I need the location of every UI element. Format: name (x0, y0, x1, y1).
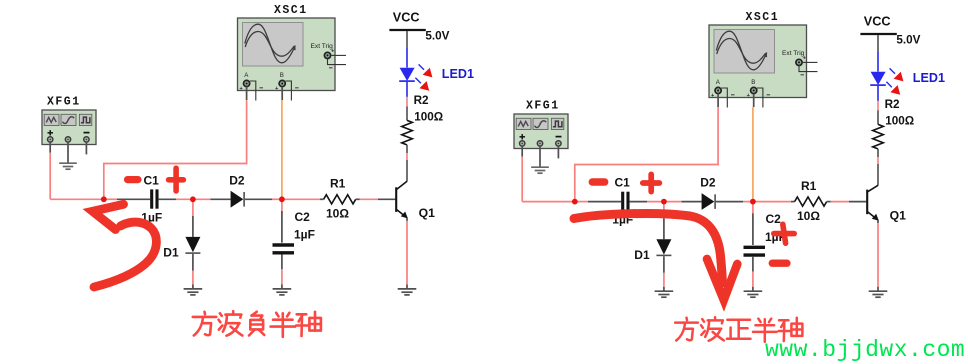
ground under C2 (right) (744, 291, 763, 297)
ground under D1 (left) (184, 289, 203, 295)
svg-text:+: + (747, 93, 750, 99)
svg-text:XFG1: XFG1 (47, 96, 81, 109)
wire C1 to node B junction (left) (159, 198, 193, 200)
svg-text:Q1: Q1 (890, 208, 906, 222)
svg-text:1µF: 1µF (294, 228, 315, 242)
XSC1 (right) channel B terminal (747, 79, 771, 107)
VCC rail bar (right) (860, 33, 896, 35)
svg-text:B: B (280, 72, 284, 79)
diode D2 (right) (702, 193, 716, 210)
XSC1 (left) Ext Trig terminal (311, 43, 347, 68)
junction node C (right) (750, 199, 756, 205)
svg-text:Ext Trig: Ext Trig (782, 50, 805, 57)
LED1 emission arrow 1 (right) (890, 68, 904, 81)
LED1 emission arrow 1 (left) (419, 64, 433, 77)
hand-drawn plus sign at C1 right plate (left) (169, 168, 184, 191)
wire node C to R1 (left) (282, 198, 324, 200)
resistor R1 (left) (324, 195, 356, 204)
ground under XFG1 (left) (59, 163, 77, 169)
svg-text:D1: D1 (163, 246, 179, 260)
svg-text:100Ω: 100Ω (885, 114, 914, 127)
wire D1 to ground (left) (192, 254, 194, 288)
junction node C (left) (279, 196, 285, 202)
wire node B to D1 (right) (663, 202, 665, 240)
wire node A to C1 (left) (104, 198, 150, 200)
wire VCC to LED (right) (877, 35, 879, 72)
wire XFG1 COM to ground (left) (67, 142, 69, 163)
caption 方波正半轴 (right) (675, 317, 802, 342)
ground under Q1 (right) (869, 291, 888, 297)
svg-text:XSC1: XSC1 (746, 11, 780, 24)
XSC1 (left) channel B terminal (275, 72, 299, 100)
svg-text:XFG1: XFG1 (526, 100, 560, 113)
wire R1 to Q1 base (left) (356, 198, 396, 200)
wire XSC1 channel B probe (right) (752, 94, 755, 202)
XSC1 (left) screen with waveforms (243, 23, 304, 67)
hand-drawn plus sign at C1 right plate (right) (643, 174, 660, 191)
caption 方波负半轴 (left) (193, 311, 321, 337)
XFG1 (right) terminal COM (537, 141, 542, 146)
XSC1 (left) channel A terminal (240, 72, 264, 100)
LED LED1 (left) (399, 68, 415, 81)
stub XFG1 - terminal (left) (85, 142, 87, 154)
junction node A (left) (101, 196, 107, 202)
wire XFG1 COM to ground (right) (539, 146, 541, 167)
capacitor C2 (left) (273, 245, 295, 253)
svg-text:100Ω: 100Ω (414, 110, 443, 123)
XFG1 (left) terminal COM (65, 137, 70, 142)
ground under Q1 (left) (398, 289, 417, 295)
hand-drawn plus sign at C2 (right) (774, 224, 794, 243)
junction node A (right) (572, 199, 578, 205)
wire XFG1 + output down to main node (left) (49, 142, 51, 199)
hand-drawn minus sign at C1 left plate (right) (592, 178, 604, 185)
ground under D1 (right) (655, 291, 674, 297)
function generator XFG1 (left) body (42, 110, 96, 145)
svg-text:D2: D2 (700, 176, 716, 190)
LED LED1 (right) (870, 72, 886, 85)
svg-text:XSC1: XSC1 (274, 4, 308, 17)
wire VCC to LED (left) (406, 31, 408, 68)
ground under C2 (left) (273, 289, 292, 295)
diode D1 (right) (656, 239, 671, 255)
transistor Q1 (left) (396, 181, 408, 218)
wire D1 to ground (right) (663, 256, 665, 290)
svg-text:+: + (711, 93, 714, 99)
svg-text:C2: C2 (295, 210, 311, 224)
ground under XFG1 (right) (531, 167, 549, 173)
svg-text:www.bjjdwx.com: www.bjjdwx.com (765, 337, 965, 363)
capacitor C2 (right) (744, 247, 766, 255)
wire XFG1 output to node A junction (right) (522, 201, 575, 203)
wire node B to D1 (left) (192, 199, 194, 237)
XFG1 (left) terminal + (48, 137, 53, 142)
wire LED to R2 (left) (406, 82, 408, 121)
wire R2 to Q1 collector (left) (406, 145, 408, 182)
svg-text:D2: D2 (229, 173, 245, 187)
wire R1 to Q1 base (right) (827, 201, 867, 203)
wire Q1 emitter to ground (right) (877, 220, 879, 291)
svg-text:+: + (331, 48, 334, 54)
LED1 emission arrow 2 (right) (886, 82, 900, 95)
XSC1 (right) screen with waveforms (714, 30, 775, 74)
diode D2 (left) (231, 191, 245, 208)
wire node B to D2 (left) (193, 198, 231, 200)
svg-text:10Ω: 10Ω (797, 209, 820, 223)
wire node C to C2 (left) (281, 199, 283, 242)
svg-text:Ext Trig: Ext Trig (311, 43, 334, 50)
oscilloscope XSC1 (right) body (709, 25, 807, 98)
hand-drawn minus sign at C2 (right) (772, 260, 787, 267)
function generator XFG1 (right) body (514, 114, 568, 149)
svg-text:5.0V: 5.0V (896, 34, 920, 47)
wire XFG1 output to node A junction (left) (50, 198, 104, 200)
junction node B (left) (190, 196, 196, 202)
svg-text:R2: R2 (414, 94, 429, 107)
wire node C to R1 (right) (753, 201, 795, 203)
hand-drawn minus sign at C1 left plate (left) (128, 176, 139, 183)
svg-text:LED1: LED1 (913, 71, 945, 85)
XSC1 (right) channel A terminal (711, 79, 735, 107)
wire C2 to ground (left) (281, 255, 283, 289)
svg-text:R1: R1 (801, 179, 817, 193)
wire D2 to node C junction (right) (716, 201, 753, 203)
svg-text:C2: C2 (766, 212, 782, 226)
XSC1 (right) Ext Trig terminal (782, 50, 818, 75)
stub XFG1 - terminal (right) (557, 146, 559, 158)
capacitor C1 (left) (152, 189, 157, 208)
transistor Q1 (right) (867, 185, 879, 220)
resistor R2 (right) (873, 124, 884, 148)
svg-text:C1: C1 (144, 173, 160, 187)
wire XSC1 channel A probe (right) (575, 94, 718, 202)
wire node A to C1 (right) (575, 201, 621, 203)
wire node C to C2 (right) (752, 202, 754, 245)
wire C2 to ground (right) (752, 257, 754, 291)
junction node B (right) (661, 199, 667, 205)
wire node B to D2 (right) (664, 201, 702, 203)
svg-text:VCC: VCC (393, 10, 420, 24)
capacitor C1 (right) (623, 192, 628, 211)
resistor R1 (right) (795, 197, 827, 206)
svg-text:5.0V: 5.0V (425, 30, 449, 43)
wire XSC1 channel A probe (left) (104, 87, 247, 200)
LED1 emission arrow 2 (left) (415, 78, 429, 91)
svg-text:VCC: VCC (864, 14, 891, 28)
wire XSC1 channel B probe (left) (281, 87, 283, 200)
svg-text:R1: R1 (330, 177, 346, 191)
resistor R2 (left) (402, 120, 413, 144)
svg-text:+: + (240, 86, 243, 92)
wire XFG1 + output down to main node (right) (521, 146, 523, 202)
wire LED to R2 (right) (877, 86, 879, 125)
svg-text:LED1: LED1 (442, 67, 474, 81)
svg-text:D1: D1 (634, 248, 650, 262)
diode D1 (left) (185, 237, 200, 253)
VCC rail bar (left) (389, 29, 425, 31)
svg-text:Q1: Q1 (419, 206, 435, 220)
hand-drawn curved arrow pointing up-left (left) (93, 204, 157, 287)
svg-text:+: + (803, 55, 806, 61)
wire R2 to Q1 collector (right) (877, 149, 879, 186)
XFG1 (left) terminal - (84, 137, 89, 142)
svg-text:R2: R2 (885, 98, 900, 111)
hand-drawn curved arrow pointing down (right) (574, 213, 737, 300)
svg-text:B: B (751, 79, 755, 86)
wire Q1 emitter to ground (left) (406, 218, 408, 289)
wire C1 to node B junction (right) (630, 201, 664, 203)
XFG1 (right) terminal - (556, 141, 561, 146)
wire D2 to node C junction (left) (245, 198, 282, 200)
svg-text:+: + (275, 86, 278, 92)
oscilloscope XSC1 (left) body (238, 18, 336, 91)
svg-text:10Ω: 10Ω (326, 207, 349, 221)
XFG1 (right) terminal + (520, 141, 525, 146)
svg-text:C1: C1 (615, 176, 631, 190)
